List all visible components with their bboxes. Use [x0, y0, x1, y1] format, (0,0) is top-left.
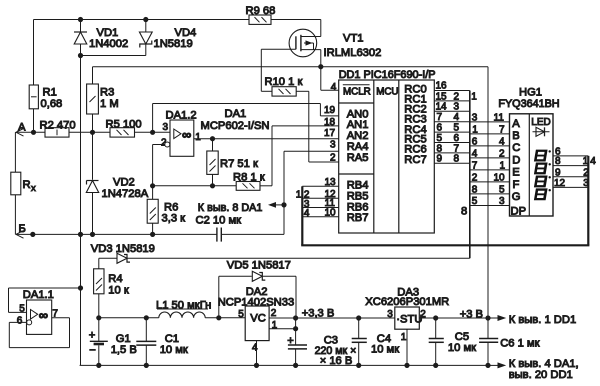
wire RC2 pin14: [434, 110, 470, 112]
svg-text:VT1: VT1: [343, 33, 364, 45]
capacitor C2: [196, 214, 285, 241]
bus segment vertical: [469, 91, 471, 259]
wire L1 to DA2: [205, 317, 245, 319]
capacitor C4: [352, 318, 400, 365]
wire display pin 6: [553, 155, 588, 157]
svg-text:0,68: 0,68: [41, 98, 63, 110]
diode VD5: [219, 260, 296, 318]
svg-text:3: 3: [499, 196, 505, 207]
svg-text:6: 6: [472, 136, 478, 147]
svg-text:+3,3 В: +3,3 В: [302, 308, 335, 320]
svg-text:B: B: [512, 130, 519, 142]
svg-text:4: 4: [590, 156, 596, 167]
svg-text:DA1.1: DA1.1: [23, 289, 54, 301]
svg-text:6: 6: [454, 133, 460, 144]
IC DA3: [365, 287, 449, 343]
svg-text:VC: VC: [250, 313, 266, 325]
svg-text:R4: R4: [108, 273, 122, 285]
wire DA2 pin2 output rail: [269, 317, 395, 319]
IC DD1 outline: [339, 80, 435, 233]
DD1 RA/RB cell divider: [339, 173, 374, 175]
resistor R10: [261, 76, 309, 96]
svg-text:1N4002: 1N4002: [89, 38, 128, 50]
wire HG1 seg DP: [470, 205, 510, 207]
svg-text:1: 1: [296, 189, 302, 200]
svg-text:8: 8: [555, 156, 561, 167]
resistor Rx: [11, 132, 36, 234]
capacitor C3: [287, 334, 356, 367]
wire RC4 pin6: [434, 131, 470, 133]
LED diode symbol: [533, 127, 550, 136]
svg-text:10 мк: 10 мк: [371, 343, 399, 355]
svg-text:R1: R1: [43, 86, 57, 98]
svg-text:3,3 к: 3,3 к: [162, 212, 186, 224]
wire HG1 seg D: [470, 157, 510, 159]
svg-text:2: 2: [499, 148, 505, 159]
inductor L1: [156, 299, 211, 317]
svg-text:RB4: RB4: [347, 179, 369, 191]
wire RC5 pin5: [434, 142, 470, 144]
svg-text:R: R: [23, 179, 31, 191]
svg-text:RA5: RA5: [347, 152, 369, 164]
svg-text:3: 3: [454, 102, 460, 113]
wire B rail: [16, 233, 217, 235]
junction output node: [210, 137, 214, 141]
wire RC6 pin8: [434, 152, 470, 154]
resistor R5: [106, 118, 142, 137]
svg-text:11: 11: [494, 112, 505, 123]
svg-text:DA1: DA1: [225, 108, 247, 120]
svg-text:6: 6: [437, 123, 443, 134]
svg-text:DP: DP: [511, 206, 527, 218]
svg-text:1N4728A: 1N4728A: [102, 188, 149, 200]
junction dots battery rail: [97, 316, 101, 320]
svg-text:3: 3: [387, 309, 393, 320]
display digit 8 #2: [534, 163, 551, 175]
wire R1 to A rail: [33, 109, 35, 133]
wire VD1-VD4 bottom link: [81, 55, 146, 57]
resistor R3: [87, 67, 119, 114]
svg-text:9: 9: [437, 154, 443, 165]
node A arrow: [16, 122, 26, 137]
wire DA2 pin1: [269, 318, 296, 345]
svg-text:+: +: [89, 330, 96, 342]
svg-text:R3: R3: [100, 86, 114, 98]
svg-text:18: 18: [324, 117, 336, 128]
svg-text:7: 7: [472, 160, 478, 171]
svg-text:R8 1 к: R8 1 к: [233, 172, 265, 184]
wire R3 to A rail: [92, 114, 94, 180]
svg-text:VD5 1N5817: VD5 1N5817: [227, 260, 291, 272]
wire left drop to R1: [33, 20, 35, 86]
wire A rail: [16, 131, 45, 133]
svg-text:R5 100: R5 100: [106, 118, 142, 130]
svg-text:17: 17: [324, 128, 336, 139]
wire inverting input: [153, 142, 170, 186]
junction dots A rail: [31, 130, 35, 134]
svg-text:∞: ∞: [182, 127, 191, 142]
svg-text:выв. 20 DD1: выв. 20 DD1: [509, 369, 573, 381]
svg-text:10: 10: [494, 172, 506, 183]
display digit 8 #4: [534, 188, 551, 200]
wire RC0 pin16: [434, 90, 470, 92]
svg-text:XC6206P301MR: XC6206P301MR: [365, 296, 449, 308]
junction dots B rail: [31, 232, 35, 236]
wire RC7 pin9: [434, 162, 470, 164]
wire R10 to RA5: [308, 91, 310, 162]
wire RC1 pin15: [434, 100, 470, 102]
wire DA1.2 output to AN2: [194, 138, 339, 140]
svg-text:HG1: HG1: [519, 86, 542, 98]
svg-text:NCP1402SN33: NCP1402SN33: [218, 296, 295, 308]
svg-text:R9 68: R9 68: [246, 5, 276, 17]
diode VD4: [139, 20, 196, 56]
display digit 8 #1: [534, 150, 551, 162]
wire DA3 pin1: [406, 329, 408, 365]
svg-text:8: 8: [472, 184, 478, 195]
svg-text:AN2: AN2: [347, 130, 369, 142]
resistor R1: [29, 85, 62, 110]
DD1 column divider left: [373, 80, 375, 233]
wire HG1 seg B: [470, 133, 510, 135]
svg-text:1,5 В: 1,5 В: [111, 344, 137, 356]
svg-text:−: −: [89, 344, 96, 356]
wire RB6: [302, 207, 338, 209]
wire VT1 drain up to R9: [320, 20, 322, 37]
svg-text:15: 15: [436, 91, 448, 102]
svg-text:2: 2: [420, 309, 426, 320]
junction dots +3.3V rail: [294, 316, 298, 320]
wire VT1 source down to MCLR node: [320, 50, 322, 91]
svg-text:4: 4: [252, 342, 258, 353]
wire R3 top rail to +3V line: [93, 66, 489, 68]
svg-text:К выв. 8 DA1: К выв. 8 DA1: [198, 202, 263, 214]
wire feedback rail: [153, 185, 237, 187]
diode VD1: [74, 20, 128, 56]
svg-text:5: 5: [437, 133, 443, 144]
wire DA1.1 pin5: [9, 288, 81, 312]
wire RB7: [302, 216, 338, 218]
junction feedback nodes: [151, 184, 155, 188]
svg-text:RB7: RB7: [347, 212, 369, 224]
svg-text:1: 1: [401, 332, 407, 343]
svg-text:4: 4: [472, 148, 478, 159]
svg-text:RC7: RC7: [404, 154, 426, 166]
svg-text:1: 1: [472, 124, 478, 135]
svg-text:DD1 PIC16F690-I/P: DD1 PIC16F690-I/P: [339, 69, 436, 81]
transistor VT1: [261, 29, 381, 59]
bus digit select bottom: [301, 244, 589, 246]
svg-text:1: 1: [195, 132, 201, 143]
wire long left vertical: [80, 56, 82, 366]
svg-text:8: 8: [461, 206, 467, 218]
svg-text:R2 470: R2 470: [40, 120, 76, 132]
svg-text:MCLR: MCLR: [343, 86, 371, 97]
resistor R2: [40, 120, 76, 137]
diode VD3: [91, 243, 155, 263]
DD1 MCLR cell divider: [339, 102, 374, 104]
svg-text:5: 5: [499, 184, 505, 195]
svg-text:1N5819: 1N5819: [154, 38, 193, 50]
svg-text:D: D: [512, 154, 520, 166]
resistor R9: [246, 5, 276, 24]
svg-text:1: 1: [500, 160, 506, 171]
svg-text:10 мк: 10 мк: [448, 342, 476, 354]
wire display pin 8: [553, 165, 588, 167]
node to pin 8 DA1 arrow: [198, 202, 286, 214]
arrow to pin 1 DD1: [490, 314, 576, 326]
svg-text:F: F: [513, 179, 520, 191]
svg-text:Б: Б: [19, 223, 26, 235]
wire DA3 output rail +3V: [419, 317, 490, 319]
svg-text:R7 51 к: R7 51 к: [220, 158, 258, 170]
op-amp DA1.1: [17, 289, 59, 334]
svg-text:К выв. 1 DD1: К выв. 1 DD1: [509, 314, 576, 326]
svg-text:MCP602-I/SN: MCP602-I/SN: [201, 120, 270, 132]
wire gate down: [260, 49, 262, 91]
wire top rail: [34, 19, 250, 21]
wire VD3 rail: [99, 257, 470, 259]
svg-text:C6 1 мк: C6 1 мк: [500, 338, 539, 350]
wire RC3 pin7: [434, 121, 470, 123]
display HG1 box: [510, 114, 554, 216]
junction VT1/R3 node: [319, 65, 323, 69]
wire HG1 seg C: [470, 145, 510, 147]
svg-text:10 мк: 10 мк: [160, 344, 188, 356]
wire display pin 9: [553, 176, 588, 178]
wire HG1 seg E: [470, 169, 510, 171]
resistor R4: [94, 258, 129, 318]
wire DA1.1 feedback: [9, 318, 69, 348]
arrow to pin 4 DA1 pin 20 DD1: [490, 358, 579, 381]
wire HG1 seg G: [470, 193, 510, 195]
svg-text:LED: LED: [531, 117, 550, 128]
wire HG1 seg F: [470, 181, 510, 183]
svg-text:12: 12: [554, 178, 566, 189]
svg-text:5: 5: [238, 309, 244, 320]
svg-text:5: 5: [472, 196, 478, 207]
wire RB5: [302, 197, 338, 199]
svg-text:16: 16: [436, 81, 448, 92]
capacitor C1: [136, 318, 188, 366]
svg-text:3: 3: [472, 112, 478, 123]
zener diode VD2: [86, 177, 148, 235]
svg-text:4: 4: [304, 208, 310, 219]
svg-text:∞: ∞: [39, 308, 48, 323]
junction pin5 to battery minus: [78, 286, 82, 290]
svg-text:DA1.2: DA1.2: [166, 109, 197, 121]
wire right vertical to +3V rail: [487, 67, 489, 339]
capacitor C5: [429, 318, 476, 365]
pin name MCLR: [343, 85, 371, 98]
svg-text:4: 4: [331, 82, 337, 93]
svg-text:A: A: [512, 118, 520, 130]
display digit 8 #3: [534, 176, 551, 188]
svg-text:R10 1 к: R10 1 к: [265, 76, 303, 88]
svg-text:К выв. 4 DA1,: К выв. 4 DA1,: [509, 358, 579, 370]
svg-text:G: G: [512, 191, 521, 203]
svg-text:MCU: MCU: [376, 86, 398, 97]
wire R8 to AN1: [260, 126, 339, 186]
svg-text:+3 В: +3 В: [460, 308, 483, 320]
wire MCLR pin 4: [321, 89, 339, 91]
svg-text:3: 3: [583, 178, 589, 189]
wire RB4: [302, 185, 338, 187]
svg-text:8: 8: [437, 143, 443, 154]
svg-text:19: 19: [324, 105, 336, 116]
svg-text:FYQ3641BH: FYQ3641BH: [498, 98, 559, 110]
svg-text:VD3 1N5819: VD3 1N5819: [91, 243, 155, 255]
svg-text:6: 6: [17, 316, 23, 327]
svg-text:10 к: 10 к: [108, 285, 129, 297]
svg-text:14: 14: [436, 102, 448, 113]
battery G1: [89, 318, 137, 366]
svg-text:·STU: ·STU: [396, 313, 422, 325]
op-amp DA1.2: [161, 109, 201, 156]
node B arrow: [16, 223, 26, 238]
svg-text:3: 3: [330, 140, 336, 151]
svg-text:4: 4: [454, 112, 460, 123]
svg-text:x: x: [31, 183, 36, 194]
resistor R8: [233, 172, 265, 191]
bus digit select vertical right: [587, 156, 589, 245]
junction dots top: [78, 17, 82, 21]
svg-text:9: 9: [555, 167, 561, 178]
svg-text:1: 1: [471, 91, 477, 102]
svg-text:2: 2: [330, 152, 336, 163]
svg-text:2: 2: [472, 172, 478, 183]
wire ground rail bottom: [80, 364, 490, 366]
IC DA2: [218, 286, 295, 353]
svg-text:3: 3: [163, 122, 169, 133]
svg-text:C2 10 мк: C2 10 мк: [196, 214, 242, 226]
svg-text:IRLML6302: IRLML6302: [324, 47, 382, 59]
wire AN0 link up-over: [153, 104, 339, 133]
wire HG1 seg A: [470, 121, 510, 123]
resistor R6: [147, 186, 185, 235]
bus digit select vertical left: [301, 186, 303, 245]
svg-text:7: 7: [437, 112, 443, 123]
svg-text:C: C: [512, 142, 520, 154]
wire DA2 pin4: [256, 341, 258, 366]
svg-text:7: 7: [499, 124, 505, 135]
svg-text:+: +: [287, 335, 294, 347]
svg-text:1: 1: [583, 156, 589, 167]
svg-text:2: 2: [583, 167, 589, 178]
DD1 column divider right: [398, 80, 400, 233]
svg-text:L1 50 мкГн: L1 50 мкГн: [156, 299, 211, 311]
svg-text:E: E: [512, 167, 519, 179]
wire C2 up to RA4: [284, 151, 339, 234]
junction dots ground rail: [97, 363, 101, 367]
svg-text:5: 5: [454, 123, 460, 134]
wire display pin 12: [553, 186, 588, 188]
svg-text:8: 8: [454, 154, 460, 165]
svg-text:4: 4: [499, 136, 505, 147]
svg-text:2: 2: [454, 91, 460, 102]
svg-text:7: 7: [454, 143, 460, 154]
resistor R7: [207, 139, 258, 186]
wire battery rail left: [99, 317, 159, 319]
svg-text:1 М: 1 М: [100, 98, 119, 110]
capacitor C6: [479, 338, 540, 350]
display divider: [528, 114, 530, 216]
